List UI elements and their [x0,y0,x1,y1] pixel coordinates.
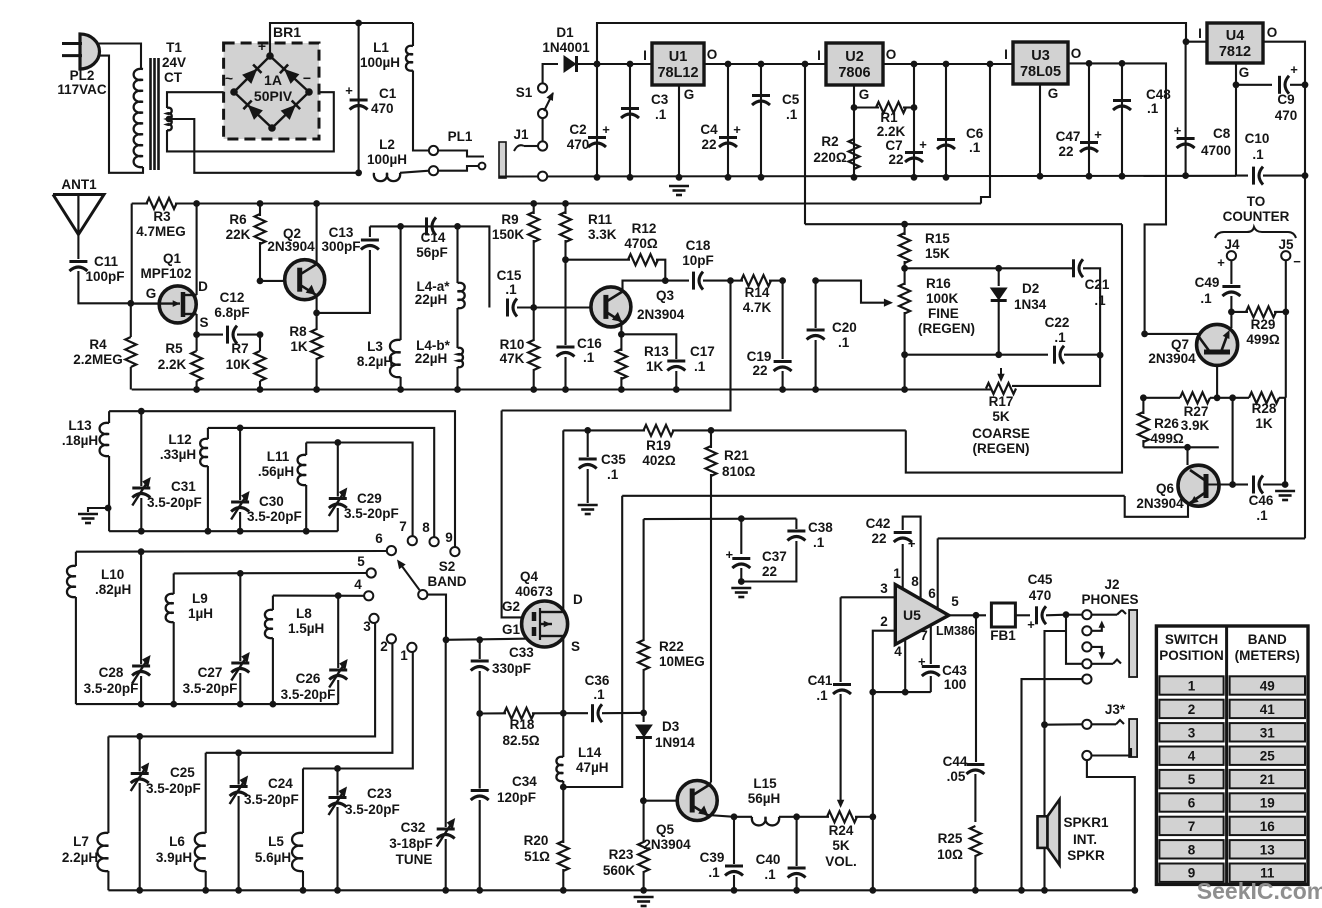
node R6 top [257,200,264,207]
node D2 top [995,265,1002,272]
svg-text:22: 22 [762,564,777,579]
jack J2 bar [1129,610,1137,677]
node C33 bottom junction [476,710,483,717]
svg-text:L15: L15 [753,776,777,791]
svg-text:C19: C19 [747,349,772,364]
svg-text:R12: R12 [632,221,657,236]
inductor L3 8.2uH [357,226,401,389]
svg-text:3.9K: 3.9K [1181,418,1210,433]
svg-text:+: + [919,137,927,152]
node C18 output [727,277,734,284]
node C47 top [1086,60,1093,180]
svg-text:R14: R14 [745,285,770,300]
transistor Q3 2N3904 [591,287,685,327]
wire J4 down [1230,260,1232,284]
svg-text:25: 25 [1260,749,1276,764]
svg-text:R6: R6 [229,212,247,227]
svg-text:L3: L3 [367,339,383,354]
svg-text:C5: C5 [782,92,800,107]
node C1 top [355,20,362,27]
svg-text:(METERS): (METERS) [1235,648,1300,663]
wire U4 output [1263,42,1305,539]
bridge rectifier BR1 diamond [230,52,313,132]
BR1 labels [225,24,311,104]
svg-text:3.5-20pF: 3.5-20pF [281,687,336,702]
node 6V feed [987,61,994,68]
svg-text:6.8pF: 6.8pF [214,305,249,320]
svg-text:+: + [918,654,926,669]
svg-text:+: + [258,38,266,54]
jack J2 ring contact [1082,659,1121,668]
upper tank rail nodes [138,528,310,535]
jack J3 switch contact [1082,748,1131,760]
wire upper tank bottom rail [109,530,338,532]
svg-text:499Ω: 499Ω [1150,431,1184,446]
wire U2 output rail [883,63,1013,65]
wire U3 output rail [1068,63,1166,334]
resistor R20 51 [524,787,569,890]
wire L11 tank top rail [306,443,412,537]
svg-text:.82µH: .82µH [95,582,131,597]
wire U5 pin1 [893,544,902,589]
svg-text:100µH: 100µH [360,55,400,70]
svg-text:D3: D3 [662,719,680,734]
capacitor C23 trimmer [329,769,400,891]
svg-text:7: 7 [920,628,928,643]
wire L13 tank top rail [109,411,455,547]
svg-text:C7: C7 [885,138,902,153]
svg-text:499Ω: 499Ω [1246,332,1280,347]
svg-text:LM386: LM386 [936,624,975,638]
wire L8 tank top rail 4 [273,595,364,597]
wire T1 secondary top to BR1 ~ input [167,92,234,108]
svg-text:G: G [1048,86,1059,101]
wire U4 ground pin [1235,63,1237,85]
svg-text:.1: .1 [1054,330,1066,345]
svg-text:R21: R21 [724,448,749,463]
potentiometer R24 5K VOL [797,811,873,869]
svg-text:C10: C10 [1245,131,1270,146]
svg-text:+: + [1290,62,1298,77]
capacitor C14 56pF [416,217,448,260]
bridge rectifier BR1 dashed box [224,43,319,139]
RF 6V rail with R3 inline [132,202,981,204]
svg-text:.1: .1 [786,107,798,122]
svg-text:56pF: 56pF [416,245,448,260]
speaker SPKR1 [1038,799,1109,865]
svg-text:VOL.: VOL. [825,854,857,869]
inductor L4-a 22uH [415,226,465,348]
AC plug PL2 [57,34,107,97]
svg-text:1A: 1A [264,72,282,88]
svg-text:C33: C33 [509,645,534,660]
svg-text:U1: U1 [669,49,688,65]
node R16 bottom junction [901,351,908,358]
wire speaker column [1043,725,1045,817]
wire L7 tank top rail 3 [108,623,375,736]
capacitor C5 [752,64,800,177]
svg-text:.1: .1 [816,688,828,703]
wire U5 pin7 [920,625,931,664]
wire R27/R28 node down [1232,398,1234,485]
wire Q6 collector [1206,483,1233,485]
wire 12V feed to audio rail [906,224,1122,472]
node U1 ground [676,174,683,181]
svg-text:L5: L5 [268,834,284,849]
svg-text:C2: C2 [569,122,586,137]
capacitor C49 [1195,275,1241,312]
svg-text:R15: R15 [925,231,950,246]
svg-text:J2: J2 [1104,577,1119,592]
resistor R10 47K [500,308,540,390]
svg-text:3.5-20pF: 3.5-20pF [344,506,399,521]
svg-text:L1: L1 [373,40,389,55]
capacitor C4 [700,64,741,177]
svg-text:5.6µH: 5.6µH [255,850,291,865]
node CT tap [166,116,173,123]
wire Q5 base [643,800,677,802]
svg-text:3: 3 [363,619,371,634]
svg-text:51Ω: 51Ω [524,849,550,864]
jack J2 switch contact 3 [1082,642,1105,659]
wire R14 node to R16 wiper [816,281,893,307]
svg-text:1K: 1K [1255,416,1273,431]
svg-text:100µH: 100µH [367,152,407,167]
resistor R19 402 [642,425,676,468]
node R12/C18 junction [662,277,669,284]
svg-text:49: 49 [1260,679,1275,694]
node C1 ground [355,169,362,176]
switch S2 wiper [397,559,467,599]
svg-text:C4: C4 [700,122,718,137]
node R23 ground [640,887,647,894]
ground symbol at C46 [1275,491,1295,500]
resistor R29 499 [1231,306,1285,347]
resistor R23 560K [603,801,649,891]
svg-text:C35: C35 [601,452,626,467]
svg-text:R25: R25 [938,831,963,846]
svg-text:15K: 15K [925,246,950,261]
node C48 top [1119,60,1126,180]
switch S2 contact 2 [380,634,396,654]
capacitor C18 10pF [682,238,730,290]
svg-text:C21: C21 [1085,277,1110,292]
svg-text:FB1: FB1 [990,628,1016,643]
svg-text:C44: C44 [943,754,968,769]
svg-text:T1: T1 [166,40,182,55]
svg-text:C6: C6 [966,126,984,141]
svg-text:2.2K: 2.2K [158,357,187,372]
svg-text:47µH: 47µH [576,760,609,775]
ground symbol below U1 [669,186,689,195]
svg-text:24V: 24V [162,55,186,70]
node D2 bottom [995,351,1002,358]
node R9 top [530,200,537,207]
svg-text:1K: 1K [646,359,664,374]
node U5 output junction [973,612,980,619]
svg-text:R16: R16 [926,276,951,291]
svg-text:CT: CT [164,70,183,85]
svg-text:3.5-20pF: 3.5-20pF [84,681,139,696]
svg-text:810Ω: 810Ω [722,464,756,479]
svg-text:C27: C27 [198,665,223,680]
svg-text:SeekIC.com: SeekIC.com [1197,878,1322,904]
wire pin2/pin4/C43 ground link [873,691,931,693]
svg-text:6: 6 [1188,796,1196,811]
wire G2 feed [502,411,531,618]
wire C10 column [1236,85,1248,176]
node pin4 ground link [869,689,908,696]
transformer T1 core [151,58,159,170]
svg-text:.1: .1 [655,107,667,122]
svg-text:C9: C9 [1277,92,1294,107]
svg-text:U4: U4 [1226,28,1245,44]
svg-text:22: 22 [888,152,903,167]
inductor L8 1.5uH [265,596,324,705]
wire Q2 base [260,280,286,282]
svg-text:C45: C45 [1028,572,1053,587]
resistor R18 82.5 [480,708,564,748]
switch S2 contact 3 [363,614,378,634]
svg-text:.1: .1 [1256,508,1268,523]
node Q6 collector junction [1229,481,1236,488]
svg-text:R23: R23 [609,847,634,862]
inductor L15 56uH [734,776,797,825]
svg-text:117VAC: 117VAC [57,82,107,97]
wire Q5 emitter to L15 node [708,815,734,817]
svg-text:C49: C49 [1195,275,1220,290]
wire C45 node to ring [1066,615,1082,664]
node L4 top [454,223,461,230]
svg-text:G: G [684,87,695,102]
svg-text:470Ω: 470Ω [624,236,658,251]
regen 12V rail [805,223,1122,225]
svg-text:+: + [733,122,741,137]
node Q1 gate [127,300,134,307]
jack J1 [499,127,547,178]
svg-text:J4: J4 [1224,237,1240,252]
svg-text:R18: R18 [510,717,535,732]
svg-text:R4: R4 [89,337,107,352]
svg-text:.1: .1 [764,867,776,882]
node C6 top [943,61,950,181]
capacitor C39 [700,817,743,891]
wire top bypass rail 24V [597,23,1186,64]
node C30 top [237,425,244,432]
svg-text:C20: C20 [832,320,857,335]
svg-text:78L12: 78L12 [657,65,698,81]
svg-text:I: I [1198,26,1202,41]
svg-text:R28: R28 [1252,401,1277,416]
wire R16 bottom line [905,354,1048,356]
svg-text:470: 470 [1029,588,1052,603]
ground symbol at C35 [578,505,598,514]
node C25 top [136,733,143,740]
svg-text:7806: 7806 [838,65,870,81]
svg-text:R17: R17 [989,394,1014,409]
svg-text:.1: .1 [813,535,825,550]
node U4 G junction [1233,81,1240,88]
svg-text:D: D [573,592,583,607]
svg-text:3.5-20pF: 3.5-20pF [147,495,202,510]
node Q5 base junction [640,797,647,804]
node R29 right junction [1282,309,1289,316]
wire C14 line [370,226,490,307]
node Q2 base junction [257,278,264,285]
svg-text:56µH: 56µH [748,791,781,806]
capacitor C20 [807,281,857,390]
wire C37/C38 rail [644,518,797,521]
svg-text:16: 16 [1260,819,1276,834]
wire Q7 emitter [1216,364,1218,398]
inductor L2 [367,137,429,181]
svg-text:C39: C39 [700,850,725,865]
jack J2 sleeve contact [1022,675,1092,891]
capacitor C38 [741,519,833,582]
svg-text:Q4: Q4 [520,569,539,584]
resistor R13 1K [616,334,669,389]
svg-text:10pF: 10pF [682,253,714,268]
wire speaker to ground [1043,848,1045,890]
svg-text:(REGEN): (REGEN) [973,441,1030,456]
svg-text:402Ω: 402Ω [642,453,676,468]
resistor R9 150K [492,204,539,308]
svg-text:~: ~ [225,70,233,86]
svg-text:50PIV: 50PIV [254,88,293,104]
node C36 right junction [640,710,647,717]
wire L13 ground stub [88,508,108,512]
svg-text:PHONES: PHONES [1081,592,1138,607]
node C37 top [738,515,745,522]
capacitor C46 [1233,476,1286,524]
svg-text:R19: R19 [646,438,671,453]
ferrite bead FB1 [990,603,1030,643]
wire C21 column down to R17 line [1012,355,1100,386]
node C24 top [235,749,242,756]
svg-text:C25: C25 [170,765,195,780]
svg-text:100K: 100K [926,291,959,306]
transistor Q6 2N3904 [1136,465,1219,511]
svg-text:.56µH: .56µH [258,464,294,479]
wire Q6 top feed [1186,447,1188,465]
node C31 top [138,408,145,415]
svg-text:C42: C42 [866,516,891,531]
node L15 right junction [793,813,800,820]
inductor L1 [360,23,429,151]
node C3 top [627,61,634,181]
svg-text:.1: .1 [708,865,720,880]
jack J3 bar [1129,719,1137,757]
transistor Q4 40673 dual-gate MOSFET [502,569,583,654]
svg-text:7: 7 [1188,819,1196,834]
capacitor C3 [621,64,669,177]
svg-text:BAND: BAND [1248,632,1287,647]
capacitor C1 [345,23,397,173]
svg-text:S: S [571,639,580,654]
svg-text:8: 8 [1188,842,1196,857]
wire counter pickup line [622,495,1124,497]
svg-text:I: I [817,48,821,63]
svg-text:C36: C36 [585,673,610,688]
svg-text:I: I [643,48,647,63]
capacitor C15 [497,268,534,317]
svg-text:C8: C8 [1213,126,1231,141]
svg-text:2: 2 [380,639,388,654]
amplifier U5 LM386 [895,585,975,645]
svg-text:41: 41 [1260,702,1276,717]
wire S2 wiper to C32 junction [427,595,446,640]
svg-text:1µH: 1µH [188,606,213,621]
capacitor C42 22 [866,516,921,599]
svg-text:19: 19 [1260,796,1275,811]
svg-text:Q6: Q6 [1156,481,1175,496]
wire speaker feed tap [1045,631,1067,725]
wire L14 to counter line [563,496,622,787]
resistor R3 4.7MEG [136,198,186,239]
svg-text:G: G [1239,65,1250,80]
svg-text:2N3904: 2N3904 [637,307,685,322]
wire R27 R28 rail [1143,397,1285,399]
capacitor C37 22 [726,519,787,582]
jack J2 PHONES labels [1081,577,1138,607]
wire R3 left leg [131,204,133,304]
capacitor C28 trimmer [84,552,151,704]
resistor R7 10K [226,335,266,390]
svg-text:22µH: 22µH [415,351,448,366]
svg-text:4: 4 [1188,749,1196,764]
wire U4 G to C9 [1236,84,1272,86]
svg-text:40673: 40673 [515,584,553,599]
svg-text:4.7K: 4.7K [743,300,772,315]
svg-text:82.5Ω: 82.5Ω [502,733,539,748]
svg-text:100pF: 100pF [85,269,124,284]
capacitor C12 6.8pF [197,290,260,344]
svg-text:MPF102: MPF102 [140,266,191,281]
switch S2 contact 4 [354,577,373,600]
wire Q1 drain [196,204,198,296]
svg-text:D2: D2 [1022,281,1039,296]
node U4 input junction [1183,38,1190,45]
svg-text:10MEG: 10MEG [659,654,705,669]
svg-text:SPKR1: SPKR1 [1063,815,1109,830]
svg-text:2.2K: 2.2K [877,124,906,139]
capacitor C17 [621,334,714,389]
inductor L5 5.6uH [255,769,303,891]
main supply rail segment 1 [597,63,652,65]
svg-text:5: 5 [951,594,959,609]
capacitor C32 trimmer TUNE [389,640,455,891]
svg-text:R20: R20 [524,833,549,848]
node D1 output [594,61,601,68]
switch S2 contact 1 [400,643,416,663]
capacitor C35 [579,430,627,503]
wire R28 right down [1284,398,1286,485]
svg-text:31: 31 [1260,725,1276,740]
resistor R4 2.2MEG [73,303,136,389]
svg-text:+: + [602,122,610,137]
svg-text:−: − [1293,254,1301,269]
node Q2 emitter junction [313,310,320,317]
wire U1 ground pin [678,85,680,177]
capacitor C27 trimmer [183,573,250,704]
wire R26 bottom line [1143,446,1218,448]
svg-text:Q1: Q1 [163,251,182,266]
svg-text:C46: C46 [1249,493,1274,508]
node C27 top [237,570,244,577]
wire 6V down-feed to RF rail [981,64,990,204]
inductor L13 .18uH [62,411,109,531]
resistor R21 810 [706,430,756,782]
